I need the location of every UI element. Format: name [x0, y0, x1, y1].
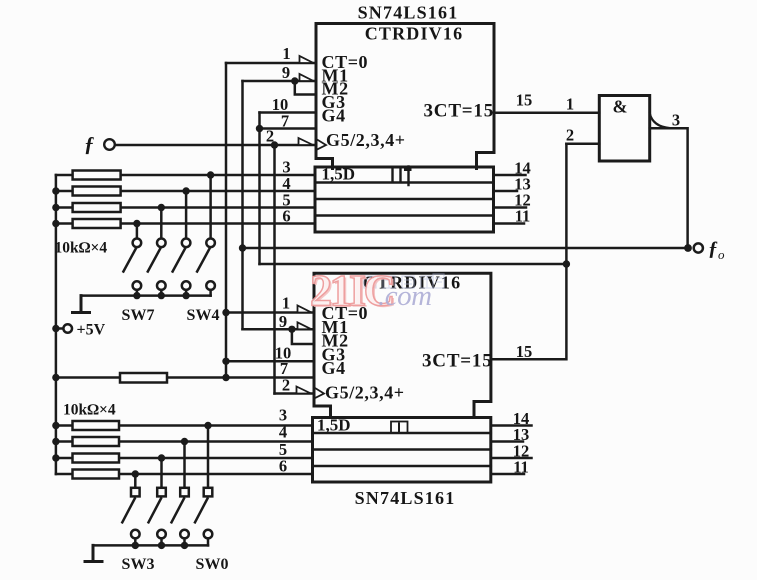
wire switch SW3 drop [134, 474, 137, 488]
wire col2 ground stub [160, 290, 163, 296]
svg-text:ƒ: ƒ [84, 132, 95, 156]
junction M1/M2 tie upper [291, 77, 298, 84]
resistor R8 [73, 454, 120, 463]
switch lcol2 lever [149, 499, 162, 523]
svg-text:9: 9 [279, 312, 287, 331]
svg-text:SW3: SW3 [122, 556, 155, 573]
wire U2 pin2 G5 clock [275, 392, 314, 395]
wire col3 ground stub [185, 290, 188, 296]
wire switch drop col2 [160, 208, 163, 239]
U2 output stub pin13 [491, 440, 523, 443]
polarity wedge U1 pin1 [300, 56, 314, 63]
wire SW7 ground stub [136, 290, 139, 296]
wire pull-up row to U2 pin7 G4 [56, 376, 314, 379]
U1 register [1] marker ticks [393, 167, 409, 186]
wire gate pin2 [566, 143, 599, 146]
wire U2 pin9 M1 [243, 328, 314, 331]
U1 output stub pin11 [494, 222, 525, 225]
polarity wedge U2 pin2 [297, 387, 312, 394]
clock arrowhead U2 G5 [315, 388, 324, 398]
junction fo/M1 bus [239, 244, 246, 251]
wire enable feedback to U1 G3/G4 [260, 263, 567, 266]
wire U1 pin9 M1 [243, 80, 316, 83]
wire switch SW7 drop [136, 224, 139, 239]
svg-text:G5/2,3,4+: G5/2,3,4+ [325, 383, 405, 403]
svg-text:o: o [718, 247, 725, 262]
wire U1 pin1 CT=0 [226, 62, 316, 65]
switch SW3 bottom contact [131, 530, 140, 539]
wire lower switch drop col2 [160, 458, 163, 488]
wire SW3 ground stub [134, 538, 137, 545]
switch lcol3 lever [172, 499, 185, 523]
svg-text:G4: G4 [322, 106, 346, 126]
wire SW4 ground stub [209, 290, 212, 296]
wire U2 pin15 riser [491, 144, 567, 359]
switch SW3 lever [122, 499, 135, 523]
junction CT bus lower pin1 [222, 309, 229, 316]
polarity wedge U1 pin2 [299, 138, 314, 145]
terminal +5V [56, 327, 64, 330]
wire SW0 ground stub [207, 538, 210, 545]
resistor R9 [73, 470, 120, 479]
svg-text:3: 3 [672, 111, 680, 130]
bus CLK [273, 145, 276, 394]
counter U1 (upper SN74LS161) outline [316, 24, 494, 169]
wire switch drop col3 [185, 191, 188, 239]
terminal f [104, 139, 115, 150]
junction lower row1 switch tap [204, 422, 211, 429]
wire data row3 to U1 pin5 [56, 206, 315, 209]
resistor R3 [73, 203, 121, 212]
switch lcol2 bottom contact [157, 530, 166, 539]
junction G4 tap on G3 bus [256, 125, 263, 132]
junction bus lower row2 [52, 438, 59, 445]
switch lcol3 bottom contact [180, 530, 189, 539]
svg-text:9: 9 [282, 63, 290, 82]
wire data row2 to U1 pin4 [56, 190, 315, 193]
U1 output stub pin14 [494, 174, 526, 177]
junction enable branch [563, 260, 570, 267]
switch col2 top contact [157, 239, 166, 248]
resistor R4 [73, 219, 121, 228]
svg-text:10kΩ×4: 10kΩ×4 [55, 240, 108, 257]
junction bus row3 [52, 204, 59, 211]
wire U1 M2 tie [295, 81, 316, 95]
U2 output stub pin14 [491, 424, 532, 427]
junction CT bus pull-up [222, 374, 229, 381]
svg-text:1,5D: 1,5D [317, 416, 351, 435]
junction CT bus lower pin10 [222, 358, 229, 365]
switch SW0 top contact [204, 488, 213, 497]
svg-text:6: 6 [282, 207, 290, 226]
switch SW4 lever [197, 249, 210, 272]
svg-text:10kΩ×4: 10kΩ×4 [63, 402, 116, 419]
junction bus row2 [52, 187, 59, 194]
svg-text:15: 15 [516, 91, 533, 110]
bus G3 [258, 113, 261, 265]
U1 output stub pin13 [494, 190, 518, 193]
junction lower row3 switch tap [158, 454, 165, 461]
junction bus lower row3 [52, 454, 59, 461]
svg-text:ƒ: ƒ [708, 238, 718, 260]
switch SW4 bottom contact [206, 281, 215, 290]
ground upper [73, 296, 90, 313]
U1 output stub pin12 [494, 206, 527, 209]
U2 register [1] marker [391, 422, 408, 434]
wire U1 pin10 G3 [260, 111, 316, 114]
junction rail col2 [158, 292, 165, 299]
resistor R1 [73, 171, 121, 180]
wire +5V bus vertical [55, 175, 58, 474]
U1 register section [315, 167, 494, 232]
wire gate output pin3 [650, 128, 688, 248]
wire U2 pin10 G3 [226, 360, 314, 363]
wire switch SW0 drop [207, 426, 210, 489]
junction rail SW7 [133, 292, 140, 299]
U1 register dividers [315, 183, 494, 216]
junction row4 switch tap [133, 220, 140, 227]
svg-text:15: 15 [516, 342, 533, 361]
svg-text:.com: .com [378, 280, 432, 312]
svg-text:11: 11 [513, 458, 529, 477]
wire data row1 to U1 pin3 [56, 174, 315, 177]
svg-text:+5V: +5V [77, 322, 106, 339]
wire U2 pin1 CT=0 [226, 311, 314, 314]
wire ground rail lower switches [93, 544, 208, 547]
switch col2 bottom contact [157, 281, 166, 290]
switch lcol2 top contact [157, 488, 166, 497]
polarity wedge U1 pin9 [300, 74, 314, 81]
svg-text:3CT=15: 3CT=15 [424, 101, 495, 122]
resistor R2 [73, 187, 121, 196]
wire data row3 to U2 pin5 [56, 457, 313, 460]
junction row2 switch tap [182, 187, 189, 194]
svg-text:11: 11 [515, 207, 531, 226]
wire data row2 to U2 pin4 [56, 440, 313, 443]
junction rail lcol2 [158, 542, 165, 549]
junction CLK tap on f wire [271, 141, 278, 148]
wire data row1 to U2 pin3 [56, 424, 313, 427]
svg-text:SW4: SW4 [187, 307, 220, 324]
svg-text:7: 7 [281, 112, 289, 131]
svg-text:2: 2 [266, 127, 274, 146]
switch SW0 lever [195, 499, 208, 523]
svg-text:2: 2 [282, 376, 290, 395]
wire data row4 to U2 pin6 [56, 473, 313, 476]
switch col3 top contact [182, 239, 191, 248]
wire ground rail upper switches [81, 294, 211, 297]
switch SW0 bottom contact [204, 530, 213, 539]
resistor R5 pull-up [120, 373, 167, 383]
wire lower switch drop col3 [183, 442, 186, 489]
junction lower row4 switch tap [132, 470, 139, 477]
svg-text:SW7: SW7 [122, 307, 155, 324]
junction fo node [684, 244, 692, 252]
svg-text:2: 2 [566, 126, 574, 145]
svg-text:6: 6 [279, 457, 287, 476]
wire lcol3 ground stub [183, 538, 186, 545]
svg-text:G4: G4 [322, 358, 346, 378]
terminal fo [694, 243, 703, 252]
bus M1 [241, 81, 244, 329]
junction row3 switch tap [158, 204, 165, 211]
junction row1 switch tap [207, 171, 214, 178]
switch col3 lever [173, 249, 186, 272]
ground lower [85, 545, 102, 561]
junction rail lcol3 [181, 542, 188, 549]
counter U2 (lower SN74LS161) outline [314, 273, 491, 417]
switch SW7 top contact [133, 239, 142, 248]
junction rail col3 [182, 292, 189, 299]
wire data row4 to U1 pin6 [56, 222, 315, 225]
U2 register section [313, 418, 491, 483]
resistor R7 [73, 437, 120, 446]
wire fo line [243, 247, 689, 250]
switch SW7 bottom contact [133, 281, 142, 290]
switch SW3 top contact [131, 488, 140, 497]
polarity wedge U2 pin1 [298, 306, 312, 313]
U2 register dividers [313, 433, 491, 466]
svg-text:1,5D: 1,5D [322, 165, 356, 184]
svg-text:4: 4 [279, 423, 287, 442]
U2 output stub pin12 [491, 457, 532, 460]
wire U2 M2 tie [292, 329, 314, 344]
svg-text:SN74LS161: SN74LS161 [358, 3, 459, 23]
wire U1 pin7 G4 [260, 127, 316, 130]
svg-text:SN74LS161: SN74LS161 [355, 488, 456, 508]
junction lower row2 switch tap [181, 438, 188, 445]
svg-text:CTRDIV16: CTRDIV16 [365, 24, 464, 44]
bus CT (clear/load net) [225, 63, 228, 378]
wire f input to U1 pin2 G5 clock [113, 144, 316, 147]
junction bus pull-up [52, 374, 59, 381]
watermark blue chars [364, 274, 444, 288]
junction rail SW3 [132, 542, 139, 549]
polarity wedge U2 pin9 [298, 322, 312, 329]
switch SW7 lever [123, 249, 135, 272]
wire lcol2 ground stub [160, 538, 163, 545]
switch lcol3 top contact [180, 488, 189, 497]
U2 output stub pin11 [491, 473, 524, 476]
resistor R6 [73, 421, 120, 430]
switch col3 bottom contact [182, 281, 191, 290]
svg-text:G5/2,3,4+: G5/2,3,4+ [326, 130, 406, 150]
switch col2 lever [148, 249, 161, 272]
svg-text:1: 1 [282, 44, 290, 63]
junction bus +5V [52, 325, 59, 332]
svg-text:1: 1 [282, 294, 290, 313]
svg-text:SW0: SW0 [196, 556, 229, 573]
clock arrowhead U1 G5 [317, 140, 326, 150]
switch SW4 top contact [206, 239, 215, 248]
wire U1 pin15 to gate pin1 [494, 112, 599, 115]
junction bus row4 [52, 220, 59, 227]
svg-text:1: 1 [566, 95, 574, 114]
and-gate U3 box [599, 96, 649, 162]
junction M1/M2 tie lower [288, 326, 295, 333]
wire switch SW4 drop [209, 175, 212, 239]
junction bus lower row1 [52, 422, 59, 429]
svg-text:3CT=15: 3CT=15 [422, 351, 493, 372]
svg-text:&: & [613, 97, 628, 117]
